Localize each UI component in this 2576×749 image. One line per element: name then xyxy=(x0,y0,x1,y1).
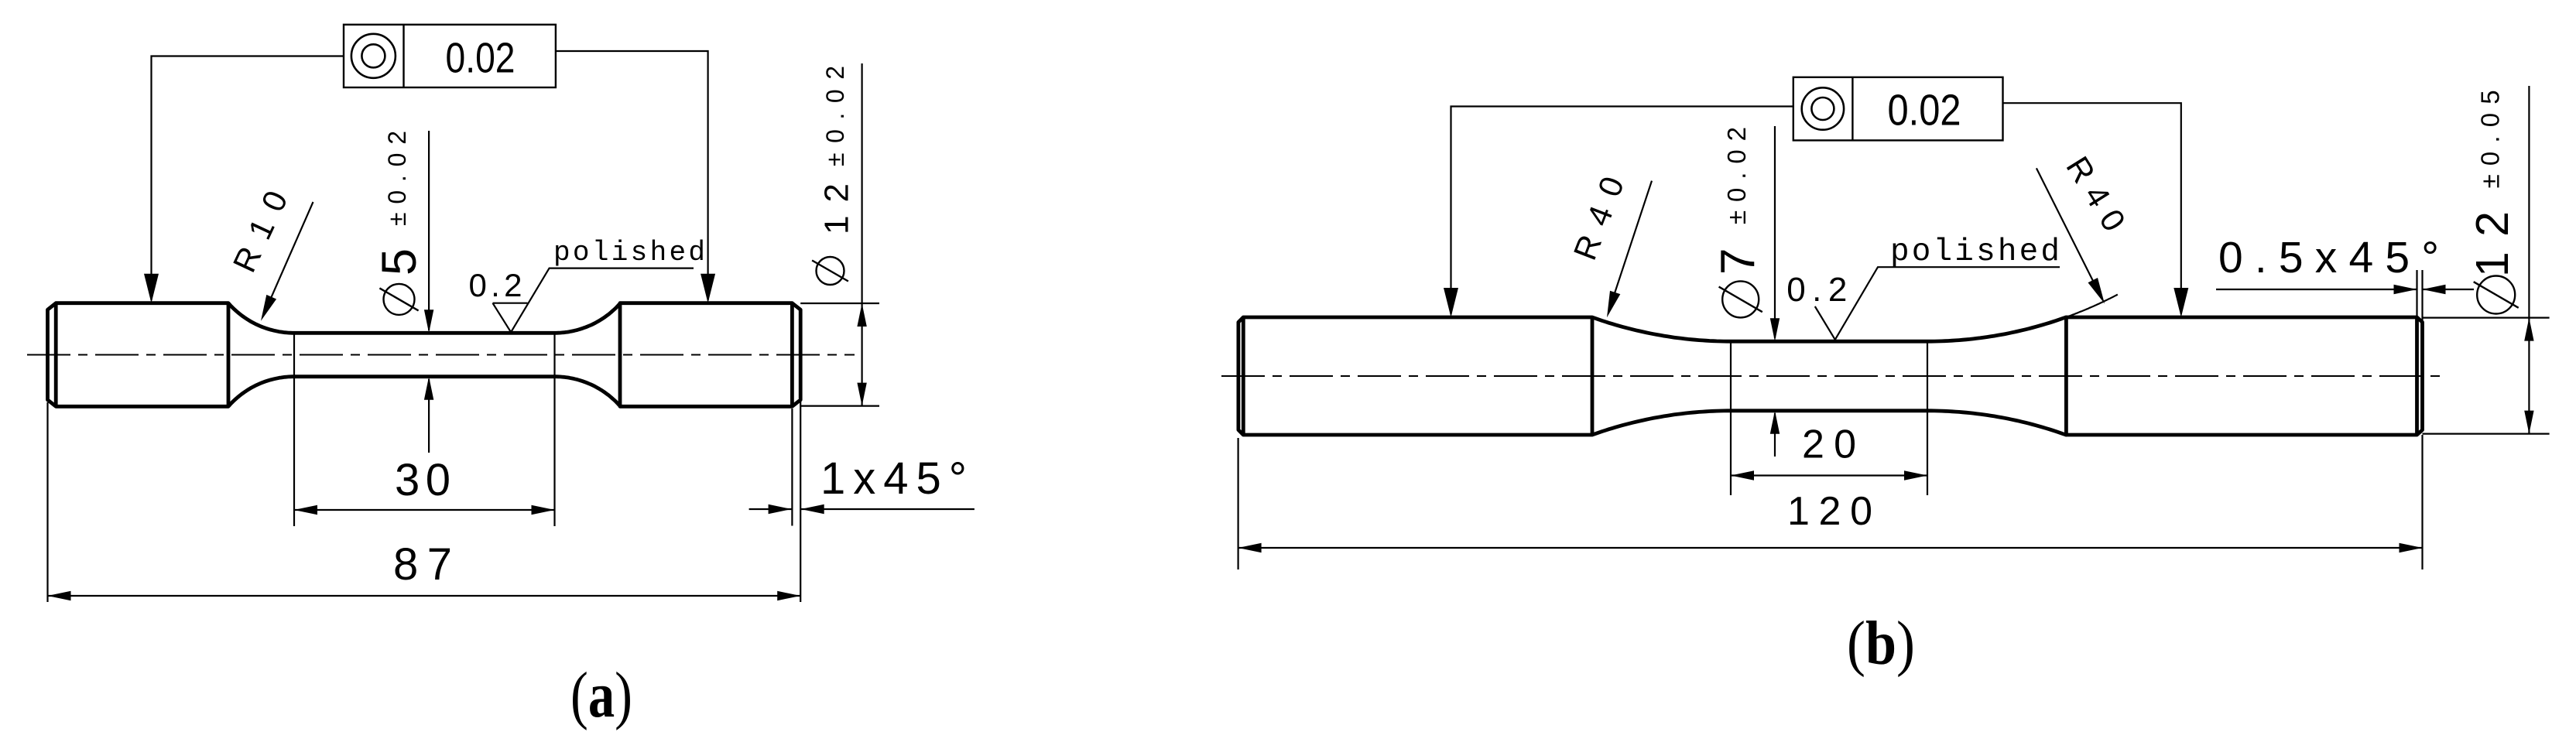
svg-text:0.02: 0.02 xyxy=(1888,86,1961,135)
svg-text:0.2: 0.2 xyxy=(469,267,522,303)
svg-text:5: 5 xyxy=(372,248,426,275)
svg-text:(a): (a) xyxy=(570,659,632,731)
svg-text:0.02: 0.02 xyxy=(446,34,516,82)
svg-text:(b): (b) xyxy=(1847,610,1915,678)
svg-text:0.2: 0.2 xyxy=(1786,271,1847,309)
svg-text:120: 120 xyxy=(1787,489,1872,534)
svg-text:7: 7 xyxy=(1711,248,1765,275)
